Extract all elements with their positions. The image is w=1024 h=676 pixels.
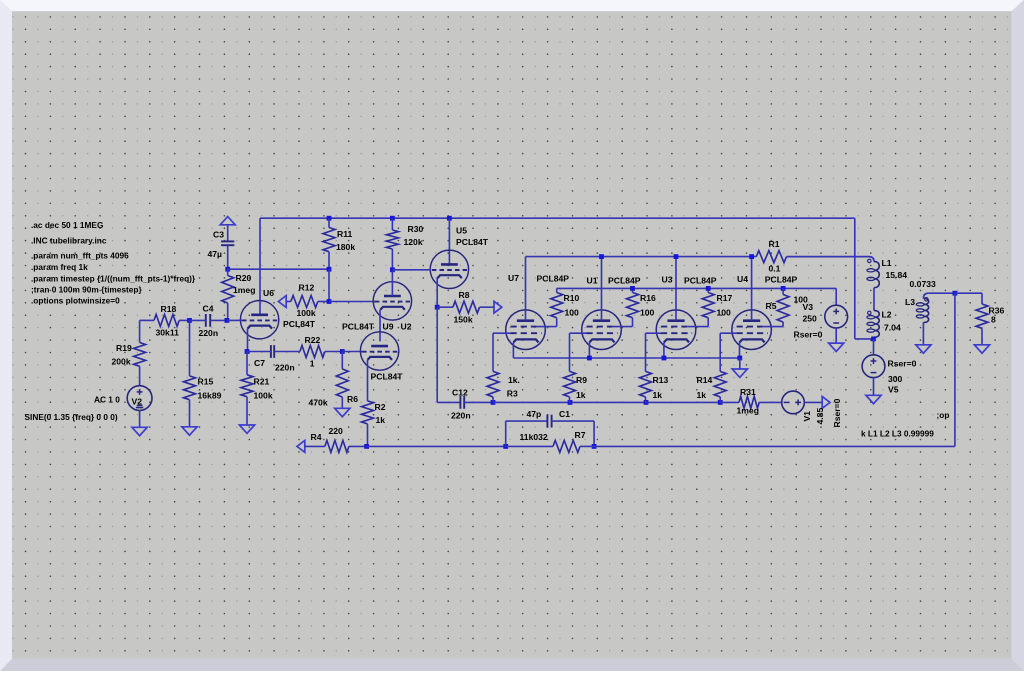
ground below L3 [916, 345, 931, 353]
svg-text:470k: 470k [309, 397, 328, 407]
svg-text:R9: R9 [576, 375, 587, 385]
wire screen-grid bus [557, 287, 837, 289]
wire U1 cathode lead [588, 342, 590, 358]
wire output drop to bottom bus [954, 293, 956, 446]
wire U3 cathode lead [663, 342, 665, 358]
svg-text:1k: 1k [376, 415, 386, 425]
svg-text:R31: R31 [740, 387, 756, 397]
pentode U3 [656, 310, 696, 350]
resistor R7 [553, 440, 580, 452]
wire V5 top lead [873, 339, 875, 355]
wire V3 bottom lead [835, 328, 837, 343]
wire L1-L2 [873, 288, 875, 311]
wire C3 bottom lead [227, 245, 229, 269]
wire bus R3-R9 [493, 401, 570, 403]
svg-text:L2: L2 [882, 310, 892, 320]
junction R14 bottom [718, 400, 723, 405]
svg-text:15.84: 15.84 [886, 270, 908, 280]
svg-text:PCL84P: PCL84P [537, 273, 570, 283]
wire R36 bottom lead [981, 328, 983, 345]
ground below V3 [829, 343, 844, 351]
svg-text:SINE(0 1.35 {freq} 0 0 0): SINE(0 1.35 {freq} 0 0 0) [25, 412, 118, 422]
wire R18 left corner vertical [139, 320, 141, 342]
svg-text:.options plotwinsize=0: .options plotwinsize=0 [31, 295, 120, 305]
wire R30 bottom lead [391, 249, 393, 270]
svg-text:C1: C1 [559, 409, 570, 419]
net flag at R12 left [278, 296, 286, 308]
junction R18/C4/R15 node [187, 318, 192, 323]
svg-text:V5: V5 [888, 384, 899, 394]
triode U5 [430, 250, 468, 288]
svg-text:;op: ;op [937, 410, 950, 420]
wire R19 to V2 [139, 366, 141, 386]
svg-text:C4: C4 [203, 303, 214, 313]
svg-text:R3: R3 [507, 389, 518, 399]
wire U4 g2 to R5 [763, 326, 783, 328]
wire U7 g2 resistor riser [556, 318, 558, 327]
wire U5 cathode down to C12 [436, 307, 438, 402]
svg-text:U6: U6 [263, 288, 274, 298]
wire V3 top lead [835, 288, 837, 305]
wire R22 right lead [325, 351, 342, 353]
pentode U4 [732, 310, 772, 350]
resistor R1 [756, 251, 786, 263]
svg-text:Rser=0: Rser=0 [794, 330, 823, 340]
wire into U9 grid [342, 351, 362, 353]
svg-text:100k: 100k [254, 391, 273, 401]
junction R13 bottom [644, 400, 649, 405]
capacitor C4 [205, 314, 207, 327]
svg-text:L3: L3 [905, 297, 915, 307]
ground below V2 [132, 427, 147, 435]
resistor R5 [777, 295, 789, 323]
wire R2 bottom lead [367, 424, 369, 447]
wire U3 anode riser [675, 257, 677, 321]
wire C1 box left riser [505, 421, 507, 446]
svg-text:R20: R20 [236, 273, 252, 283]
wire R9 bottom lead [569, 397, 571, 403]
junction R3 bottom [491, 400, 496, 405]
ground below R6 [335, 408, 350, 416]
voltage source V2 [127, 386, 152, 411]
junction U1 anode [599, 254, 604, 259]
wire pentode anode bus [526, 256, 757, 258]
ground flag rotated at C3 top [220, 217, 235, 225]
inductor L3 [923, 298, 928, 322]
wire R18 left lead [140, 319, 154, 321]
wire R8 left lead [437, 306, 453, 308]
svg-text:R2: R2 [375, 402, 386, 412]
svg-text:220n: 220n [199, 328, 219, 338]
svg-text:R22: R22 [305, 335, 321, 345]
svg-text:250: 250 [803, 313, 818, 323]
voltage source V1 [782, 391, 805, 414]
triode U2 [373, 282, 411, 320]
wire U6 cathode lead [247, 329, 249, 352]
ground below R36 [974, 345, 989, 353]
junction U1 cathode [587, 356, 592, 361]
resistor R4 [325, 440, 349, 452]
svg-text:220n: 220n [451, 410, 471, 420]
junction R20/C4/U6-grid node [225, 318, 230, 323]
svg-text:Rser=0: Rser=0 [832, 398, 842, 427]
svg-text:.INC tubelibrary.inc: .INC tubelibrary.inc [31, 236, 107, 246]
svg-text:PCL84P: PCL84P [608, 275, 641, 285]
svg-text:U7: U7 [508, 273, 519, 283]
resistor R11 [323, 228, 335, 252]
junction C1 box right [592, 444, 597, 449]
wire cathode bus to ground [739, 358, 741, 369]
wire g1 stub to R9 [570, 332, 587, 334]
wire R20 top lead [227, 269, 229, 275]
wire R21 bottom lead [246, 397, 248, 425]
wire U5 cathode lead [436, 278, 438, 307]
junction C1 box left [503, 444, 508, 449]
junction R9 bottom [568, 400, 573, 405]
svg-text:1k: 1k [653, 390, 663, 400]
svg-text:0.1: 0.1 [769, 264, 781, 274]
wire bus R2 to C1 box [367, 445, 506, 447]
voltage source V5 [862, 355, 885, 378]
junction U4 cathode / ground [737, 356, 742, 361]
svg-text:R1: R1 [769, 239, 780, 249]
svg-text:C3: C3 [213, 230, 224, 240]
wire U1 g2 resistor riser [632, 318, 634, 327]
wire C1 box top right [552, 420, 595, 422]
junction U3 cathode [662, 356, 667, 361]
junction U3 anode [674, 254, 679, 259]
wire R4 to R2 node [349, 445, 367, 447]
wire R8 right lead [480, 306, 495, 308]
svg-text:1meg: 1meg [233, 285, 255, 295]
resistor R30 [386, 230, 398, 249]
wire R30 top lead [391, 218, 393, 230]
svg-text:.param num_fft_pts 4096: .param num_fft_pts 4096 [31, 251, 129, 261]
ground below R21 [239, 425, 254, 433]
minus lead mark of V2 [136, 407, 143, 409]
wire U5 anode to top bus [448, 218, 450, 265]
wire C1 box top left [506, 420, 548, 422]
inductor L1 [874, 262, 879, 288]
wire g1 stub to R14 [720, 332, 736, 334]
wire C7 right lead [274, 351, 300, 353]
svg-text:PCL84T: PCL84T [371, 372, 404, 382]
svg-text:4.85: 4.85 [815, 408, 825, 425]
junction L3/R36/output [953, 291, 958, 296]
resistor R2 [362, 401, 374, 424]
svg-text:1k: 1k [576, 390, 586, 400]
resistor R6 [336, 369, 348, 397]
svg-text:R6: R6 [347, 394, 358, 404]
svg-text:200k: 200k [112, 356, 131, 366]
svg-text:R13: R13 [653, 375, 669, 385]
svg-text:PCL84T: PCL84T [342, 322, 375, 332]
junction node C3/R20/R11 [225, 267, 230, 272]
junction R11 top on bus [327, 216, 332, 221]
capacitor C12 [459, 396, 461, 409]
svg-text:.ac dec 50 1 1MEG: .ac dec 50 1 1MEG [31, 220, 103, 230]
svg-text:47p: 47p [527, 409, 542, 419]
wire U1 anode riser [601, 257, 603, 321]
wire U2 cathode to U9 anode [379, 310, 381, 342]
phase dot of L1 [868, 259, 871, 262]
junction R22/R6/U9 grid [340, 349, 345, 354]
svg-text:V3: V3 [803, 302, 814, 312]
wire bus C1 box to output drop [594, 445, 955, 447]
svg-text:100: 100 [717, 308, 732, 318]
resistor R8 [453, 301, 480, 313]
resistor R36 [976, 304, 988, 328]
wire R12 right lead [318, 301, 329, 303]
svg-text:R18: R18 [161, 304, 177, 314]
wire R7 left lead [506, 445, 553, 447]
phase dot of L2 [868, 311, 871, 314]
wire U9 cathode lead [367, 360, 369, 401]
wire C12 right lead [464, 401, 493, 403]
wire U4 anode riser [751, 257, 753, 321]
wire C3 node to R11 bottom [228, 268, 329, 270]
wire R15 top lead [189, 320, 191, 376]
svg-text:1: 1 [310, 358, 315, 368]
svg-text:R8: R8 [459, 290, 470, 300]
svg-text:100: 100 [565, 308, 580, 318]
svg-text:150k: 150k [454, 314, 473, 324]
wire L3 to junction [929, 292, 955, 294]
wire g1 stub to R3 [493, 332, 511, 334]
wire R5 top lead [782, 288, 784, 294]
wire V1 to flag [804, 401, 822, 403]
wire R15 bottom lead [189, 400, 191, 427]
wire R3 top lead [492, 333, 494, 371]
pentode U1 [582, 310, 622, 350]
wire U7 cathode lead [512, 342, 514, 358]
wire U1 g2 to resistor [613, 326, 633, 328]
svg-text:30k11: 30k11 [156, 327, 180, 337]
wire R13 bottom lead [645, 397, 647, 403]
triode U9 [360, 332, 398, 370]
wire top B+ bus horizontal [260, 217, 855, 219]
junction U5 anode on bus [447, 216, 452, 221]
svg-text:R5: R5 [766, 301, 777, 311]
junction L2/V5/B+ [871, 337, 876, 342]
wire U4 cathode lead [739, 342, 741, 358]
svg-text:7.04: 7.04 [884, 323, 901, 333]
wire V2 to ground [139, 411, 141, 428]
svg-text:1k.: 1k. [508, 375, 520, 385]
wire U3 g2 resistor riser [707, 318, 709, 327]
svg-text:8: 8 [991, 315, 996, 325]
junction U4 anode [749, 254, 754, 259]
svg-text:R30: R30 [408, 224, 424, 234]
resistor R31 [739, 396, 759, 408]
wire C12 left lead [437, 401, 460, 403]
wire L3 bottom lead [922, 322, 924, 344]
wire C7 left lead [247, 351, 271, 353]
capacitor C7 [270, 345, 272, 358]
resistor R19 [134, 343, 146, 367]
wire cathode bus [513, 357, 739, 359]
svg-text:k L1 L2 L3 0.99999: k L1 L2 L3 0.99999 [861, 428, 934, 438]
svg-text:R21: R21 [254, 376, 270, 386]
wire U3 g2 to resistor [687, 326, 708, 328]
resistor R3 [487, 371, 499, 397]
resistor R15 [184, 376, 196, 400]
wire R12 flag lead [286, 301, 291, 303]
junction R30 top on bus [390, 216, 395, 221]
net flag at R8 right [494, 301, 502, 313]
wire junction to R36 corner [955, 292, 982, 294]
svg-text:100: 100 [640, 308, 655, 318]
ground below V5 [866, 395, 881, 403]
svg-text:U4: U4 [737, 274, 748, 284]
resistor R16 [627, 293, 639, 318]
wire R11 top lead [328, 218, 330, 227]
svg-text:R7: R7 [575, 430, 586, 440]
svg-text:180k: 180k [336, 242, 355, 252]
capacitor C1 [546, 415, 548, 428]
svg-text:PCL84P: PCL84P [684, 275, 717, 285]
svg-text:V2: V2 [132, 397, 143, 407]
svg-text:U1: U1 [587, 275, 598, 285]
wire R10 top lead [556, 288, 558, 292]
wire R7 right lead [580, 445, 594, 447]
resistor R10 [551, 293, 563, 318]
svg-text:R14: R14 [697, 375, 713, 385]
svg-text:300: 300 [888, 374, 903, 384]
wire R9 top lead [569, 333, 571, 371]
svg-text:PCL84T: PCL84T [456, 237, 489, 247]
wire R12 node to U2 grid [329, 301, 375, 303]
svg-text:AC 1 0: AC 1 0 [94, 395, 120, 405]
wire R14 top lead [719, 333, 721, 371]
resistor R9 [564, 371, 576, 397]
wire U7 anode riser [525, 257, 527, 321]
resistor R13 [640, 371, 652, 397]
wire bus R14-R31 [720, 401, 739, 403]
svg-text:PCL84T: PCL84T [283, 319, 316, 329]
wire R36 top lead [981, 293, 983, 304]
svg-text:100k: 100k [297, 308, 316, 318]
svg-text:C12: C12 [452, 388, 468, 398]
wire L3 top bend [923, 293, 928, 298]
wire top B+ bus vertical drop [854, 218, 856, 339]
wire R18 right lead [179, 319, 189, 321]
wire R13 top lead [645, 333, 647, 371]
wire R6 top lead [341, 352, 343, 370]
wire R1 to L1 [787, 257, 875, 262]
wire U2 anode riser [391, 270, 393, 296]
svg-text:220n: 220n [275, 362, 295, 372]
wire R30 node to U5 grid [392, 269, 431, 271]
wire C3 top lead [227, 225, 229, 241]
svg-text:V1: V1 [802, 411, 812, 422]
wire C1 box right riser [593, 421, 595, 446]
wire R3 bottom lead [492, 397, 494, 403]
svg-text:R17: R17 [717, 293, 733, 303]
svg-text:R11: R11 [337, 229, 353, 239]
ground below R15 [182, 427, 197, 435]
svg-text:.param freq 1k: .param freq 1k [31, 262, 88, 272]
wire into U6 grid [227, 319, 242, 321]
wire R11 bottom to R12 node [328, 269, 330, 301]
resistor R12 [291, 296, 318, 308]
resistor R22 [300, 346, 325, 358]
wire V5 bottom lead [873, 378, 875, 396]
net flag at R4 left [297, 441, 305, 453]
resistor R18 [154, 314, 179, 326]
svg-text:Rser=0: Rser=0 [888, 359, 917, 369]
svg-text:U3: U3 [662, 275, 673, 285]
svg-text:.param timestep {1/((num_fft_p: .param timestep {1/((num_fft_pts-1)*freq… [31, 273, 196, 283]
svg-text:R10: R10 [564, 293, 580, 303]
wire R4 flag lead [305, 445, 325, 447]
svg-text:R16: R16 [640, 293, 656, 303]
svg-text:0.0733: 0.0733 [910, 279, 937, 289]
svg-text:R12: R12 [299, 282, 315, 292]
wire R31 to V1 [759, 401, 782, 403]
inductor L2 [874, 311, 879, 338]
wire R21 top lead [246, 352, 248, 375]
svg-text:16k89: 16k89 [198, 390, 222, 400]
junction U5 cathode / R8 [435, 305, 440, 310]
junction U6 cathode / C7 / R21 [245, 349, 250, 354]
svg-text:1k: 1k [697, 390, 707, 400]
svg-text:U2: U2 [401, 322, 412, 332]
wire R17 top lead [707, 288, 709, 292]
svg-text:C7: C7 [254, 358, 265, 368]
svg-text:1meg: 1meg [737, 406, 759, 416]
svg-text:220: 220 [329, 426, 344, 436]
svg-text:U5: U5 [456, 226, 467, 236]
wire U7 g2 to resistor [537, 326, 557, 328]
wire g1 stub to R13 [646, 332, 662, 334]
net flag at V1 right [822, 397, 830, 409]
triode U6 [240, 301, 278, 339]
svg-text:11k032: 11k032 [520, 432, 548, 442]
wire B+ to L2 bottom [855, 338, 873, 340]
wire U6 anode to top bus [259, 218, 261, 315]
resistor R20 [222, 276, 234, 304]
svg-text:120k: 120k [404, 237, 423, 247]
wire bus R13-R14 [646, 401, 720, 403]
wire C4 left lead [190, 319, 206, 321]
junction R12/U2 grid node [327, 299, 332, 304]
junction R2 bottom [364, 444, 369, 449]
svg-text:;tran 0 100m 90m {timestep}: ;tran 0 100m 90m {timestep} [31, 284, 142, 294]
wire R11 bottom lead [328, 252, 330, 270]
svg-text:PCL84P: PCL84P [765, 275, 798, 285]
svg-text:R19: R19 [116, 343, 132, 353]
wire R16 top lead [632, 288, 634, 292]
svg-text:U9: U9 [383, 322, 394, 332]
resistor R17 [702, 293, 714, 318]
phase dot of L3 [925, 298, 928, 301]
wire C4 right lead [210, 319, 227, 321]
ground of pentode cathodes [732, 369, 747, 377]
wire R6 bottom lead [341, 397, 343, 408]
voltage source V3 [825, 305, 848, 328]
junction R17 top [706, 286, 711, 291]
junction R11 bottom [327, 267, 332, 272]
svg-text:R4: R4 [311, 432, 322, 442]
wire bus R9-R13 [570, 401, 646, 403]
junction R30 bottom / U5 grid / U2 anode [390, 267, 395, 272]
svg-text:R15: R15 [198, 376, 214, 386]
resistor R14 [714, 371, 726, 397]
wire R14 bottom lead [719, 397, 721, 403]
wire R5 bottom lead [782, 322, 784, 327]
svg-text:L1: L1 [882, 258, 892, 268]
